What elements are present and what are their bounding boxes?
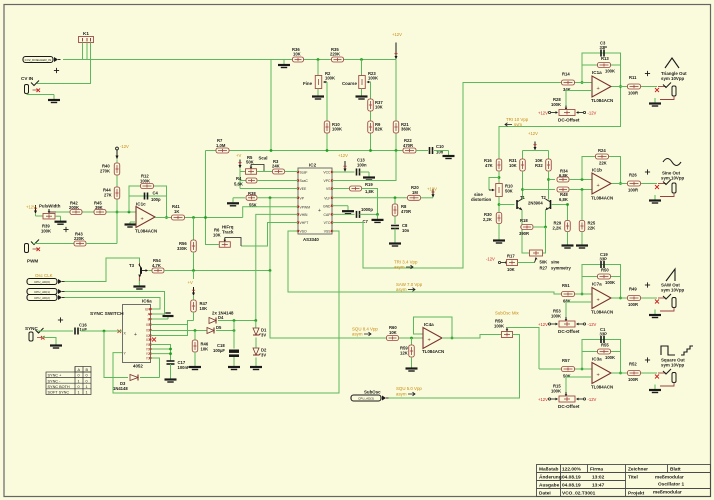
- svg-text:100K: 100K: [605, 355, 615, 360]
- svg-text:47K: 47K: [485, 163, 493, 168]
- svg-text:VHFT: VHFT: [300, 221, 309, 225]
- ground sine jack: [654, 195, 656, 200]
- svg-text:sym 10Vpp: sym 10Vpp: [661, 76, 685, 81]
- svg-text:33P: 33P: [600, 45, 608, 50]
- junction CV sum R21: [395, 149, 398, 152]
- wire VP branch down to sync row: [269, 198, 271, 271]
- resistor R48: [557, 187, 569, 192]
- svg-text:CPU_AD(3): CPU_AD(3): [358, 397, 374, 401]
- resistor R57: [539, 368, 592, 370]
- wire square output row: [612, 372, 628, 374]
- resistor R25: [579, 221, 585, 232]
- waveform icon saw: [666, 269, 675, 281]
- wire VPC row: [332, 151, 396, 181]
- capacitor C17: [167, 360, 175, 362]
- junction Y1: [169, 348, 172, 351]
- svg-text:220K: 220K: [74, 236, 84, 241]
- svg-text:+12V: +12V: [26, 205, 36, 210]
- ground Fine: [317, 89, 319, 92]
- svg-text:2,2K: 2,2K: [483, 217, 492, 222]
- bus label CV2_DOEHLER_IN: [23, 57, 53, 63]
- wire C8 to ground: [394, 229, 396, 239]
- resistor R24: [596, 154, 609, 159]
- svg-text:AS3340: AS3340: [303, 237, 319, 242]
- op-amp IC1a: [592, 76, 611, 97]
- svg-text:3V: 3V: [261, 333, 266, 338]
- wire R48 to opamp: [569, 189, 592, 191]
- jack Sine Out: [655, 185, 659, 189]
- wire T2 base to R29: [551, 204, 568, 206]
- svg-text:2,2K: 2,2K: [553, 226, 562, 231]
- svg-text:82K: 82K: [375, 127, 383, 132]
- wire R10 to T1 base: [498, 197, 500, 213]
- wire diff pair top: [523, 150, 549, 152]
- resistor R13: [598, 63, 611, 68]
- wire R56 column: [193, 218, 195, 241]
- svg-text:ScaC: ScaC: [300, 179, 309, 183]
- svg-text:meßmodular: meßmodular: [655, 475, 684, 481]
- capacitor C19: [600, 261, 602, 268]
- wire CV sum row: [206, 150, 404, 152]
- svg-text:Y0: Y0: [146, 343, 150, 347]
- svg-text:Firma: Firma: [590, 467, 603, 473]
- wire VS row: [332, 188, 349, 190]
- svg-text:100K: 100K: [332, 127, 342, 132]
- ground R29: [567, 240, 569, 245]
- svg-text:10K: 10K: [375, 105, 383, 110]
- svg-text:100R: 100R: [628, 91, 638, 96]
- ground R39: [55, 215, 61, 217]
- svg-text:R24: R24: [598, 148, 606, 153]
- wire R25 column: [581, 190, 583, 222]
- diode D5: [207, 328, 214, 334]
- svg-text:-12V: -12V: [588, 110, 597, 115]
- resistor R3: [273, 169, 285, 174]
- svg-text:asym: asym: [352, 332, 363, 337]
- svg-text:VLF: VLF: [324, 196, 330, 200]
- svg-text:100R: 100R: [628, 302, 638, 307]
- jack Square Out: [655, 375, 659, 379]
- trimpot DC-Offset saw: [565, 317, 567, 320]
- svg-text:0: 0: [86, 374, 88, 378]
- svg-text:1: 1: [78, 379, 80, 383]
- junction D5 C18: [233, 329, 236, 332]
- junction triangle output: [619, 85, 622, 88]
- wire GND pin: [332, 205, 348, 207]
- svg-text:2x 1N4148: 2x 1N4148: [212, 311, 234, 316]
- wire R38 to VP: [257, 197, 298, 199]
- svg-text:100K: 100K: [368, 76, 378, 81]
- wire CV bus top: [63, 59, 396, 61]
- zener D1: [255, 321, 257, 329]
- capacitor C1: [600, 336, 602, 343]
- wire VPWM row: [243, 207, 298, 218]
- svg-text:+12V: +12V: [427, 187, 437, 192]
- wire IC4a feedback: [414, 317, 453, 338]
- wire R19 to C7 junction: [362, 189, 378, 215]
- alignment cross triangle: [645, 73, 650, 75]
- svg-text:100K: 100K: [605, 69, 615, 74]
- svg-text:Titel: Titel: [628, 475, 638, 481]
- svg-text:R13: R13: [601, 56, 609, 61]
- capacitor C7: [356, 211, 358, 218]
- svg-text:T3: T3: [129, 263, 135, 268]
- resistor R52: [628, 371, 641, 376]
- svg-text:DC-Offset: DC-Offset: [558, 118, 580, 123]
- svg-text:6,8K: 6,8K: [559, 197, 568, 202]
- svg-text:12K: 12K: [400, 351, 408, 356]
- wiper R5: [250, 165, 252, 168]
- ground Coarse: [361, 89, 363, 92]
- wire sine feedback box: [582, 157, 621, 184]
- wire D2 ground: [255, 358, 257, 362]
- resistor R54: [152, 268, 164, 273]
- svg-text:VP: VP: [300, 196, 305, 200]
- junction saw output: [619, 297, 622, 300]
- wire C17 ground: [170, 364, 172, 374]
- junction R7 tap: [204, 216, 207, 219]
- wire SQR drop: [270, 271, 386, 339]
- capacitor C3: [600, 50, 602, 57]
- svg-text:R19: R19: [365, 182, 373, 187]
- svg-text:1N4148: 1N4148: [113, 386, 128, 391]
- wire D3 branch: [104, 331, 128, 378]
- svg-text:CAP: CAP: [324, 213, 332, 217]
- junction sync D3: [103, 330, 106, 333]
- svg-text:Scal: Scal: [259, 156, 268, 161]
- svg-text:Y3: Y3: [146, 356, 150, 360]
- svg-text:R51: R51: [562, 283, 570, 288]
- ground R59: [411, 363, 413, 368]
- resistor R34: [557, 177, 569, 182]
- wire VHFT row: [241, 223, 298, 247]
- resistor R51: [561, 293, 592, 295]
- ground IC2: [347, 206, 349, 211]
- junction R29: [566, 203, 569, 206]
- svg-text:+12V: +12V: [528, 131, 538, 136]
- svg-text:GND: GND: [323, 204, 331, 208]
- ground R30: [498, 235, 500, 240]
- svg-text:SQU 5.0 Vpp: SQU 5.0 Vpp: [396, 386, 422, 391]
- svg-text:100K: 100K: [551, 314, 561, 319]
- svg-text:IC1b: IC1b: [592, 168, 602, 173]
- waveform icon square: [661, 346, 675, 355]
- wire saw output row: [612, 297, 628, 299]
- junction saw minus: [581, 293, 584, 296]
- ground R46: [194, 362, 196, 367]
- junction R59: [410, 337, 413, 340]
- svg-text:10K: 10K: [389, 330, 397, 335]
- resistor R36: [293, 57, 304, 62]
- power +12V diff pair: [534, 142, 536, 149]
- wire sync row: [164, 270, 271, 272]
- svg-text:+12V: +12V: [392, 32, 402, 37]
- wire scale column: [239, 169, 241, 189]
- power +12V VLF: [421, 197, 434, 199]
- svg-text:TL084ACN: TL084ACN: [591, 385, 613, 390]
- alignment cross saw: [645, 284, 650, 286]
- svg-text:sym 10Vpp: sym 10Vpp: [661, 363, 685, 368]
- svg-text:DC-Offset: DC-Offset: [558, 404, 580, 409]
- svg-text:10n: 10n: [402, 228, 410, 233]
- svg-text:+: +: [597, 373, 600, 379]
- resistor R40: [114, 163, 120, 175]
- svg-text:VEE: VEE: [300, 187, 308, 191]
- ground C8: [394, 238, 396, 243]
- svg-text:R49: R49: [629, 287, 637, 292]
- resistor R32: [546, 159, 552, 171]
- svg-text:+: +: [134, 332, 137, 338]
- svg-text:100n: 100n: [357, 163, 367, 168]
- ground triangle jack: [654, 98, 656, 103]
- svg-text:0: 0: [78, 374, 80, 378]
- svg-text:CV2_DOEHLER_IN: CV2_DOEHLER_IN: [25, 58, 52, 62]
- wire R29 ground: [567, 232, 569, 241]
- svg-text:SubOsc: SubOsc: [364, 390, 381, 395]
- wire R4 row: [240, 180, 246, 182]
- svg-text:VTO: VTO: [324, 221, 331, 225]
- resistor R8: [392, 204, 398, 216]
- wire C7 to junction: [360, 213, 378, 215]
- alignment cross: [54, 70, 59, 72]
- junction sine output: [619, 182, 622, 185]
- capacitor C18: [229, 350, 239, 353]
- wire R46 ground: [194, 352, 196, 362]
- svg-text:X3: X3: [146, 338, 150, 342]
- transistor T2: [550, 200, 552, 209]
- wire saw feedback box: [582, 265, 621, 299]
- ground R36: [283, 60, 285, 65]
- ground R38: [232, 198, 234, 203]
- wire R7 left drop: [206, 151, 220, 245]
- svg-text:sine: sine: [551, 260, 560, 265]
- svg-text:IC3a: IC3a: [592, 357, 602, 362]
- wire R25 ground: [581, 232, 583, 241]
- svg-text:+: +: [597, 86, 600, 92]
- svg-text:10K: 10K: [293, 52, 301, 57]
- junction R12 feedback: [128, 211, 131, 214]
- wire triangle feedback box: [582, 53, 621, 87]
- wire R43 to R44 column: [86, 243, 117, 245]
- junction R44 pwm: [116, 211, 119, 214]
- svg-text:sym: sym: [514, 122, 522, 127]
- svg-text:VSO: VSO: [300, 230, 308, 234]
- resistor R41: [172, 215, 185, 220]
- wire IC4a output to R58: [442, 335, 501, 339]
- ground C10: [448, 151, 450, 156]
- svg-text:50K: 50K: [505, 189, 513, 194]
- pin X3 open: [152, 338, 156, 342]
- junction D4 C18: [233, 319, 236, 322]
- svg-text:100K: 100K: [551, 102, 561, 107]
- svg-text:SOFT SYNC: SOFT SYNC: [48, 391, 70, 395]
- svg-text:Y2: Y2: [146, 352, 150, 356]
- wire square plus input: [566, 376, 592, 378]
- svg-text:IC6a: IC6a: [142, 299, 152, 304]
- wire R56 to sync row: [193, 252, 195, 271]
- resistor R26: [628, 181, 641, 186]
- svg-text:+: +: [597, 183, 600, 189]
- alignment cross sine out: [645, 171, 650, 173]
- wire Y3 to D3: [151, 358, 160, 378]
- junction D4 clamp: [254, 319, 257, 322]
- svg-text:VPWM: VPWM: [300, 205, 311, 209]
- wire Y0 Y1 Y2 to C17: [151, 345, 171, 361]
- power +V R47: [193, 271, 195, 280]
- svg-text:Fine: Fine: [303, 81, 313, 86]
- wire square input drop: [538, 327, 540, 369]
- waveform icon sine: [663, 159, 681, 166]
- wire sine output row: [612, 183, 628, 185]
- wire R31 to T1 collector: [522, 171, 524, 200]
- transistor T3: [139, 263, 141, 266]
- svg-text:360K: 360K: [401, 127, 411, 132]
- wire T2 emitter to R27: [543, 227, 546, 253]
- svg-text:34K: 34K: [563, 87, 571, 92]
- ground C17: [170, 374, 172, 379]
- svg-text:+: +: [597, 298, 600, 304]
- junction VHBI clamp: [269, 269, 272, 272]
- wire VLF row: [332, 197, 407, 199]
- junction VLF R8: [394, 196, 397, 199]
- op-amp IC1c: [136, 207, 155, 228]
- svg-text:100nF: 100nF: [178, 365, 191, 370]
- wire R6 wiper tie: [225, 238, 241, 247]
- trimpot DC-Offset triangle: [565, 106, 567, 109]
- potentiometer R17: [507, 260, 518, 266]
- junction CV sum R10: [326, 149, 329, 152]
- svg-text:+12V: +12V: [338, 153, 348, 158]
- alignment cross square: [645, 359, 650, 361]
- power +12V reference: [395, 43, 397, 58]
- svg-text:-12V: -12V: [588, 397, 597, 402]
- resistor R16: [496, 159, 502, 171]
- resistor R7: [216, 148, 229, 153]
- resistor R30: [496, 213, 502, 224]
- alignment cross sync: [58, 319, 63, 321]
- ground C7: [377, 214, 379, 219]
- wiper R6: [224, 238, 226, 241]
- wire D1 D2: [255, 338, 257, 349]
- resistor R19: [350, 186, 362, 191]
- svg-text:04.08.19: 04.08.19: [562, 475, 581, 481]
- wire CAP pin to C7: [332, 213, 355, 215]
- op-amp-ic IC6a 4052: [123, 305, 151, 363]
- op-amp-ic IC2 AS3340: [298, 168, 332, 234]
- resistor R35: [332, 57, 344, 62]
- svg-text:Zeichner: Zeichner: [628, 467, 648, 473]
- capacitor C4: [144, 193, 146, 200]
- svg-text:Coarse: Coarse: [342, 81, 357, 86]
- svg-text:X1: X1: [146, 328, 150, 332]
- svg-text:SYNC BOTH: SYNC BOTH: [48, 385, 70, 389]
- svg-text:+12V: +12V: [538, 322, 548, 327]
- wire T1 collector: [521, 198, 524, 201]
- resistor R9: [368, 121, 374, 133]
- svg-text:-12V: -12V: [486, 257, 495, 262]
- svg-text:50K: 50K: [563, 374, 571, 379]
- svg-text:distortion: distortion: [471, 197, 492, 202]
- junction sine fb: [581, 178, 584, 181]
- svg-text:IC1c: IC1c: [136, 202, 146, 207]
- svg-text:4,7K: 4,7K: [152, 263, 161, 268]
- svg-text:10K: 10K: [509, 163, 517, 168]
- junction D5 R46: [194, 329, 197, 332]
- wire saw plus input: [566, 301, 592, 303]
- bus label CPU_AD2: [27, 295, 57, 301]
- svg-text:Projekt: Projekt: [628, 491, 645, 497]
- power -12V R40: [116, 147, 119, 150]
- resistor R31: [520, 159, 526, 171]
- resistor R55: [598, 349, 611, 354]
- junction R25 tap: [581, 188, 584, 191]
- svg-text:270K: 270K: [100, 169, 110, 174]
- connector K1: [79, 37, 94, 43]
- svg-text:IC4a: IC4a: [424, 322, 434, 327]
- potentiometer R5 Scal: [246, 169, 257, 175]
- svg-text:33P: 33P: [600, 332, 608, 337]
- resistor R20: [408, 195, 421, 200]
- jack SAW Out: [655, 300, 659, 304]
- wire square feedback row2: [582, 351, 621, 353]
- table sync modes: [46, 367, 91, 395]
- junction R56 sync row: [192, 269, 195, 272]
- wire R47 to D4 row: [193, 312, 195, 321]
- ground C18: [233, 362, 235, 367]
- svg-text:0: 0: [78, 385, 80, 389]
- resistor R11: [628, 84, 641, 89]
- wire TRI10 feed: [499, 87, 621, 160]
- wire R46 column: [194, 331, 196, 341]
- wire PWM to R43: [33, 243, 74, 245]
- diode D4: [209, 318, 216, 324]
- capacitor C8: [391, 225, 399, 227]
- svg-text:Ausgabe: Ausgabe: [539, 483, 560, 489]
- svg-text:33P: 33P: [600, 257, 608, 262]
- wire R32 to T2 collector: [548, 171, 550, 200]
- ground C13: [368, 172, 370, 177]
- resistor R50: [598, 274, 611, 279]
- svg-text:Y1: Y1: [146, 347, 150, 351]
- svg-text:100K: 100K: [41, 229, 51, 234]
- jack Triangle Out: [655, 88, 659, 92]
- resistor R44: [114, 187, 120, 199]
- wiper tie R10 sine distortion: [489, 178, 499, 191]
- wire R58 wiper to square stage: [507, 328, 539, 331]
- svg-text:TL084ACN: TL084ACN: [422, 349, 444, 354]
- resistor R45: [94, 210, 106, 215]
- svg-text:100R: 100R: [628, 377, 638, 382]
- wire R3 to ScaF: [285, 171, 299, 173]
- wire R58 right to SubOsc bus: [389, 335, 520, 399]
- wire IC1c feedback row2: [129, 195, 167, 197]
- svg-text:10K: 10K: [201, 347, 209, 352]
- svg-text:CV IN: CV IN: [21, 76, 34, 81]
- wire CV bus drop to R7 row: [270, 60, 272, 151]
- resistor R38: [246, 195, 257, 200]
- wire R59 ground: [411, 357, 413, 363]
- wire D4 row: [218, 320, 256, 322]
- power +12V PulsWidth: [35, 205, 37, 212]
- svg-text:R50: R50: [601, 268, 609, 273]
- ground IC1c plus input: [130, 221, 136, 223]
- junction R48 tap: [521, 188, 524, 191]
- junction IC1c output: [165, 216, 168, 219]
- wire IC1c feedback box: [129, 186, 167, 218]
- svg-text:10K: 10K: [213, 233, 221, 238]
- svg-text:+: +: [428, 338, 431, 344]
- potentiometer R10 sine distortion: [496, 184, 503, 197]
